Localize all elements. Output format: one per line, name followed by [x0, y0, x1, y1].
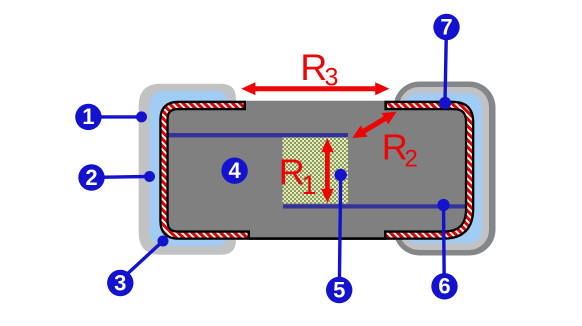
bottom black line (middle)	[249, 237, 386, 240]
svg-text:3: 3	[325, 64, 339, 92]
ceramic body (dark gray)	[159, 101, 474, 240]
svg-text:3: 3	[114, 270, 126, 295]
numbered circle 7	[433, 14, 459, 40]
resistive element (green checker)	[283, 137, 349, 203]
right end cap light gray layer	[399, 87, 489, 250]
right end cap outer dark gray layer	[394, 82, 496, 256]
numbered circle 3	[107, 270, 133, 296]
callout lines and dots	[95, 34, 451, 283]
svg-text:6: 6	[438, 274, 450, 299]
left end cap (outer plating, light gray)	[139, 84, 236, 255]
svg-text:R: R	[300, 46, 327, 88]
left light blue layer	[150, 91, 228, 246]
callout 2 line	[98, 175, 150, 179]
right hatched termination band: black borders	[384, 106, 470, 236]
callout 5 line	[339, 175, 340, 283]
R3 dimension arrow (double headed, horizontal)	[241, 82, 389, 95]
svg-text:5: 5	[333, 277, 345, 302]
right hatched termination band: candy stripes	[387, 106, 470, 236]
numbered circle 6	[431, 273, 457, 299]
svg-text:7: 7	[440, 14, 452, 39]
svg-text:2: 2	[405, 145, 418, 172]
svg-text:4: 4	[228, 158, 241, 183]
numbered circle 5	[326, 277, 352, 303]
numbered circle 4	[221, 158, 247, 184]
callout 3 line	[124, 241, 163, 277]
callout 1 line	[95, 115, 142, 118]
svg-text:2: 2	[85, 165, 97, 190]
left hatched termination band: candy stripes	[164, 106, 248, 236]
svg-text:1: 1	[302, 170, 317, 200]
callout 7 line	[445, 34, 446, 103]
R2 dimension arrow (double headed, diagonal)	[352, 112, 396, 138]
callout 6 line	[442, 205, 446, 280]
left hatched termination band: black borders	[164, 106, 250, 236]
numbered circle 2	[78, 164, 104, 190]
R1 dimension arrow (double headed, vertical)	[321, 138, 334, 202]
lower electrode	[283, 204, 467, 208]
right light blue layer	[403, 94, 482, 244]
svg-text:1: 1	[82, 104, 94, 129]
numbered circle 1	[75, 104, 101, 130]
upper electrode	[167, 133, 348, 137]
